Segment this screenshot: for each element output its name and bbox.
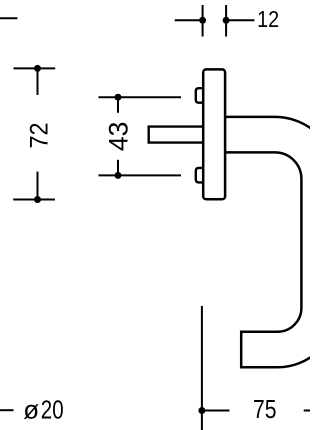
- dimension 75: extension line from door face: [201, 306, 203, 430]
- dimension diameter 20: clipped dimension line fragment bottom-left: [0, 409, 14, 411]
- svg-text:ø: ø: [23, 394, 39, 424]
- svg-text:20: 20: [41, 394, 64, 424]
- dimension 12: left arrow dot: [199, 17, 206, 24]
- svg-text:75: 75: [253, 394, 277, 424]
- dimension 12: right arrow dot: [223, 17, 230, 24]
- dimension 12: right dimension line: [226, 19, 254, 21]
- spindle shaft: [149, 127, 203, 143]
- dimension 43: top arrow dot: [115, 94, 122, 101]
- top screw boss: [196, 88, 204, 103]
- dimension 43: bottom arrow dot: [115, 172, 122, 179]
- rosette plate: [203, 69, 225, 199]
- dimension 43: bottom extension line: [99, 174, 182, 176]
- dimension 72: top tick line: [14, 67, 56, 69]
- dimension 72: bottom tick line: [13, 199, 55, 201]
- dimension 72: top arrow dot: [34, 65, 41, 72]
- dimension 75: left arrow dot: [198, 407, 205, 414]
- svg-text:12: 12: [257, 6, 279, 32]
- dimension 12: left extension tick: [202, 5, 204, 37]
- dimension 43: upper dimension line segment: [117, 97, 119, 113]
- lever handle outline (neck, grip and return leg): [225, 117, 320, 367]
- bottom screw boss: [196, 168, 204, 183]
- svg-text:43: 43: [104, 122, 134, 152]
- dimension 75: right dimension line fragment (clipped): [304, 410, 310, 412]
- clipped dimension line fragment top-left: [0, 17, 17, 19]
- dimension 72: upper dimension line segment: [37, 68, 39, 95]
- dimension 75: left dimension line: [202, 410, 230, 412]
- dimension 12: right extension tick: [225, 5, 227, 37]
- dimension 72: lower dimension line segment: [37, 172, 39, 200]
- dimension 43: lower dimension line segment: [117, 160, 119, 176]
- dimension 43: top extension line: [99, 96, 182, 98]
- svg-text:72: 72: [26, 123, 53, 149]
- dimension 12: left dimension line: [175, 19, 203, 21]
- dimension 72: bottom arrow dot: [34, 196, 41, 203]
